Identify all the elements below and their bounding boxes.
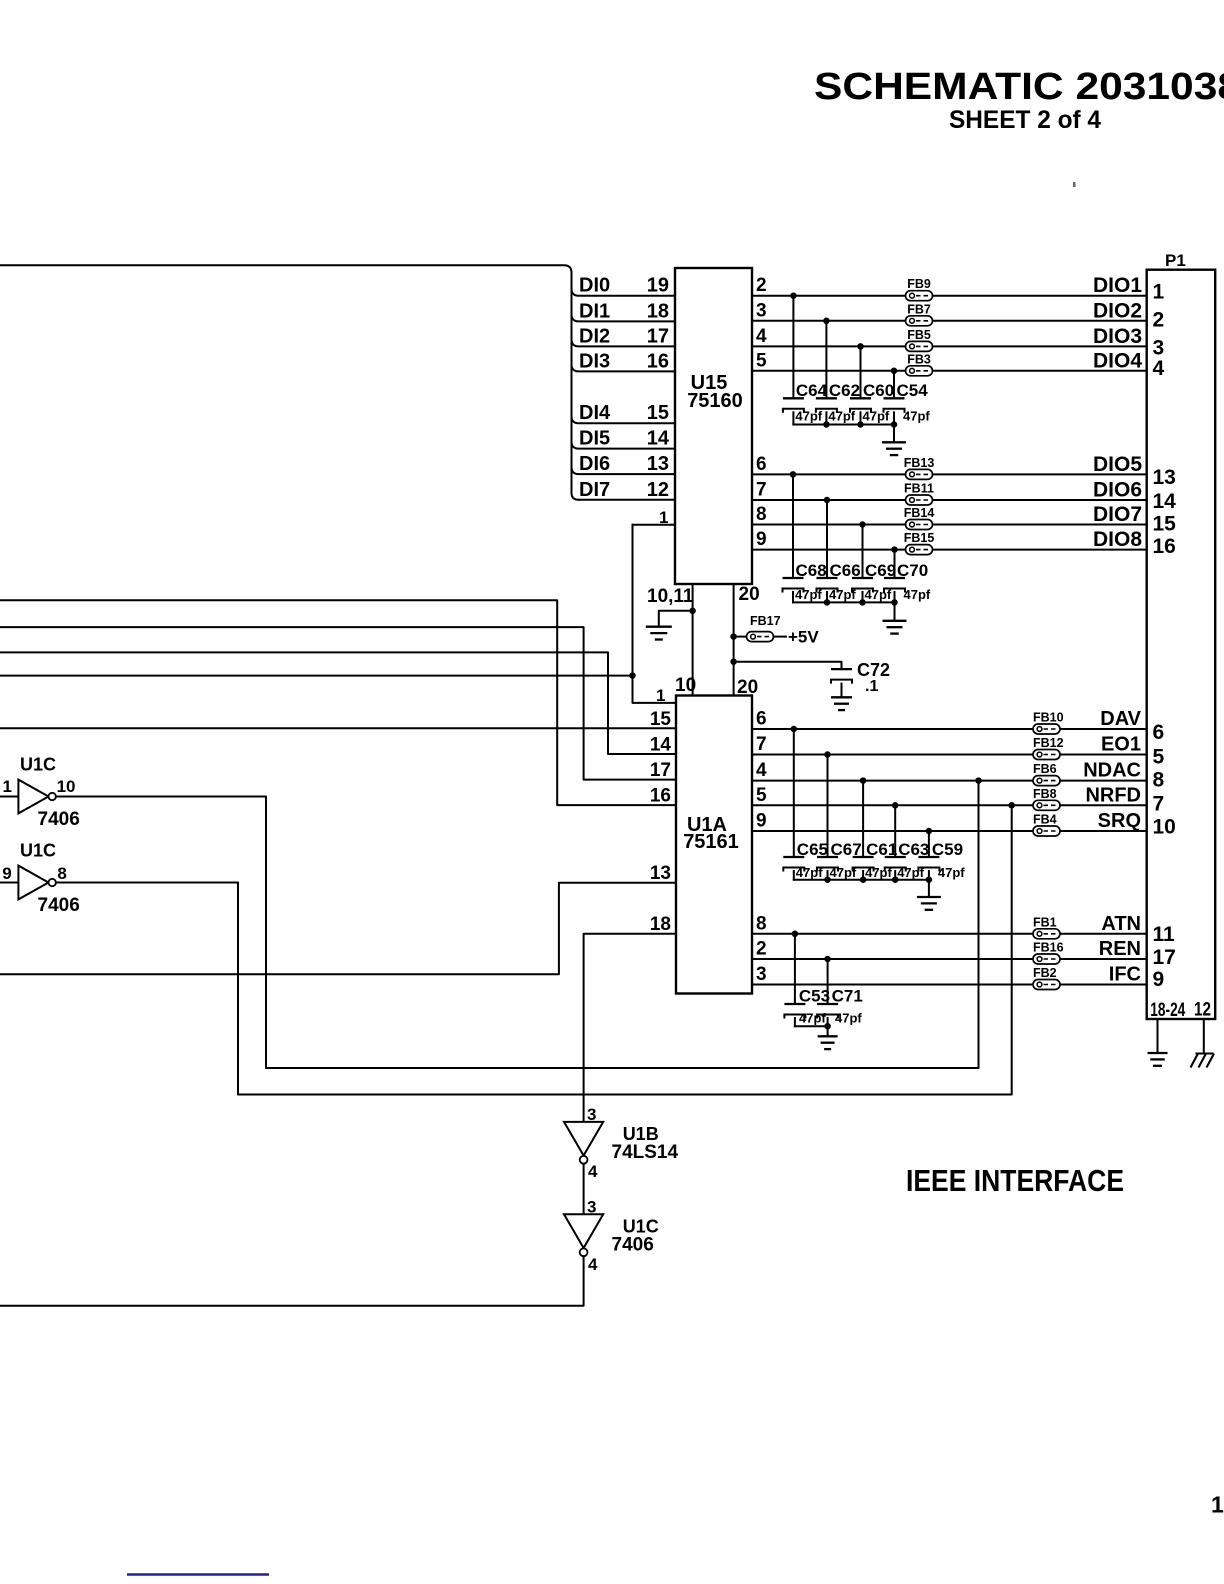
gate U1B 74LS14 inverter (pins 3-4) xyxy=(564,1122,603,1164)
wire left line D to control net xyxy=(0,675,633,677)
junction on DIO6 wire xyxy=(824,497,831,504)
svg-text:4: 4 xyxy=(588,1162,598,1181)
capacitor C63 47pf xyxy=(894,805,896,857)
capacitor C70 47pf xyxy=(894,550,896,578)
svg-text:U1C: U1C xyxy=(623,1217,659,1237)
svg-text:DI4: DI4 xyxy=(579,402,611,424)
svg-text:17: 17 xyxy=(650,760,671,781)
wire U15 pin 2 to P1 (DIO1) xyxy=(752,295,1147,297)
ferrite bead FB10 xyxy=(1033,724,1060,734)
wire DI0 to U15 pin 19 xyxy=(572,289,676,296)
wire U15 pin 9 to P1 (DIO8) xyxy=(752,549,1147,551)
svg-text:REN: REN xyxy=(1099,938,1141,960)
wire U1A pin 3 to P1 (IFC) xyxy=(752,984,1147,986)
ferrite bead FB13 xyxy=(906,469,933,479)
svg-text:U1C: U1C xyxy=(20,841,56,861)
svg-text:ATN: ATN xyxy=(1101,913,1141,935)
svg-text:7406: 7406 xyxy=(38,809,80,830)
svg-text:FB8: FB8 xyxy=(1033,787,1057,801)
junction on NDAC wire xyxy=(975,777,982,784)
svg-text:FB9: FB9 xyxy=(907,277,931,291)
wire U1A pin 2 to P1 (REN) xyxy=(752,958,1147,960)
junction on DIO2 wire xyxy=(823,318,830,325)
node: ground branch junction xyxy=(689,608,696,615)
svg-text:DIO4: DIO4 xyxy=(1093,349,1142,372)
junction on DIO1 wire xyxy=(790,292,797,299)
ferrite bead FB5 xyxy=(906,341,933,351)
connector P1 xyxy=(1147,270,1216,1019)
svg-text:FB12: FB12 xyxy=(1033,736,1064,750)
svg-text:2: 2 xyxy=(756,275,767,296)
svg-text:2: 2 xyxy=(756,939,767,960)
wire left line B to U1A pin 17 xyxy=(0,627,676,780)
wire U15 pin 7 to P1 (DIO6) xyxy=(752,499,1147,501)
svg-text:20: 20 xyxy=(739,584,760,605)
ferrite bead FB16 xyxy=(1033,954,1060,964)
ground (cap bank1) xyxy=(893,425,895,443)
gate U1C 7406 inverter (pins 3-4) xyxy=(564,1214,603,1256)
junction bank4 xyxy=(824,1023,831,1030)
svg-text:47pf: 47pf xyxy=(828,409,855,424)
junction on DIO5 wire xyxy=(790,471,797,478)
wire U1A pin 7 to P1 (EO1) xyxy=(752,754,1147,756)
wire U15 pin 8 to P1 (DIO7) xyxy=(752,524,1147,526)
node: FB17 branch junction xyxy=(730,633,737,640)
svg-text:17: 17 xyxy=(647,325,669,347)
svg-text:DIO7: DIO7 xyxy=(1093,503,1142,526)
gate U1C 7406 inverter (pins 1-10) xyxy=(0,780,56,814)
svg-text:47pf: 47pf xyxy=(938,865,965,880)
wire P1 pin 12 to chassis ground xyxy=(1203,1019,1205,1054)
wire U1A pin 18 to gate U1B input xyxy=(584,934,676,1122)
svg-text:FB1: FB1 xyxy=(1033,915,1057,929)
svg-text:IEEE INTERFACE: IEEE INTERFACE xyxy=(906,1163,1124,1198)
ferrite bead FB9 xyxy=(906,291,933,301)
svg-text:2: 2 xyxy=(1153,309,1165,332)
svg-text:13: 13 xyxy=(1153,466,1176,489)
junction on ATN wire xyxy=(792,931,799,938)
ferrite bead FB2 xyxy=(1033,980,1060,990)
svg-text:1: 1 xyxy=(659,508,668,527)
junction on DIO4 wire xyxy=(891,368,898,375)
svg-text:10: 10 xyxy=(1153,816,1176,839)
svg-text:19: 19 xyxy=(647,275,669,297)
capacitor C65 47pf xyxy=(793,729,795,857)
junction on DAV wire xyxy=(791,726,798,733)
svg-text:6: 6 xyxy=(756,454,767,475)
ferrite bead FB8 xyxy=(1033,800,1060,810)
svg-text:C54: C54 xyxy=(897,381,929,400)
svg-text:47pf: 47pf xyxy=(865,587,892,602)
svg-text:FB13: FB13 xyxy=(904,456,935,470)
svg-text:C72: C72 xyxy=(857,660,890,680)
svg-text:5: 5 xyxy=(756,785,767,806)
svg-text:9: 9 xyxy=(2,864,11,883)
blue underline mark xyxy=(127,1573,269,1576)
ground (cap bank2) xyxy=(894,602,896,620)
svg-text:7: 7 xyxy=(756,480,767,501)
wire DI7 to U15 pin 12 xyxy=(579,499,676,501)
svg-text:FB16: FB16 xyxy=(1033,941,1064,955)
svg-text:16: 16 xyxy=(650,786,671,807)
svg-text:9: 9 xyxy=(756,529,767,550)
svg-text:74LS14: 74LS14 xyxy=(612,1142,679,1163)
junction bank3 xyxy=(926,876,933,883)
svg-text:DI7: DI7 xyxy=(579,479,610,501)
svg-text:U1C: U1C xyxy=(20,755,56,775)
wire FB17 to +5V xyxy=(774,636,787,638)
svg-text:5: 5 xyxy=(1153,746,1165,769)
wire DI3 to U15 pin 16 xyxy=(572,364,676,371)
svg-text:DIO6: DIO6 xyxy=(1093,479,1142,502)
svg-text:13: 13 xyxy=(650,863,671,884)
svg-text:SRQ: SRQ xyxy=(1098,810,1141,832)
svg-text:75161: 75161 xyxy=(683,831,739,853)
ferrite bead FB4 xyxy=(1033,826,1060,836)
chassis ground (P1 pin 12) xyxy=(1191,1054,1215,1068)
wire U15 pins 10,11 down xyxy=(692,584,694,696)
svg-text:18: 18 xyxy=(647,300,669,322)
svg-text:7406: 7406 xyxy=(612,1235,654,1256)
capacitor C72 .1 xyxy=(831,668,852,670)
svg-text:17: 17 xyxy=(1153,946,1176,969)
svg-text:FB6: FB6 xyxy=(1033,762,1057,776)
svg-text:47pf: 47pf xyxy=(799,1011,826,1026)
svg-text:FB15: FB15 xyxy=(904,531,935,545)
wire DI2 to U15 pin 17 xyxy=(572,339,676,346)
ground (P1 18-24) xyxy=(1148,1053,1168,1066)
ferrite bead FB7 xyxy=(906,316,933,326)
svg-text:15: 15 xyxy=(647,402,669,424)
svg-text:FB5: FB5 xyxy=(907,328,931,342)
svg-text:1: 1 xyxy=(1153,281,1165,304)
svg-text:9: 9 xyxy=(1153,968,1165,991)
ferrite bead FB12 xyxy=(1033,750,1060,760)
junction bank2 xyxy=(824,599,831,606)
ferrite bead FB14 xyxy=(906,520,933,530)
svg-text:FB7: FB7 xyxy=(907,302,931,316)
svg-text:7: 7 xyxy=(756,734,767,755)
svg-text:DI2: DI2 xyxy=(579,325,610,347)
wire to ground xyxy=(659,611,693,627)
junction bank2 xyxy=(859,599,866,606)
svg-text:C53: C53 xyxy=(799,987,830,1006)
svg-text:U1B: U1B xyxy=(623,1124,659,1144)
svg-text:1.: 1. xyxy=(1211,1492,1224,1518)
junction on DIO8 wire xyxy=(891,546,898,553)
wire DI5 to U15 pin 14 xyxy=(572,442,676,449)
wire: cap bank1 ground bus xyxy=(793,424,894,426)
wire: cap bank3 ground bus xyxy=(794,879,929,881)
svg-text:47pf: 47pf xyxy=(835,1011,862,1026)
svg-text:14: 14 xyxy=(1153,490,1177,513)
junction on NRFD wire xyxy=(1008,802,1015,809)
svg-text:6: 6 xyxy=(756,709,767,730)
svg-text:10: 10 xyxy=(57,777,76,796)
svg-text:EO1: EO1 xyxy=(1101,734,1141,756)
ground (C72) xyxy=(831,697,852,710)
svg-text:47pf: 47pf xyxy=(904,587,931,602)
wire U1A pin 9 to P1 (SRQ) xyxy=(752,830,1147,832)
svg-text:12: 12 xyxy=(1194,1000,1211,1021)
junction on EO1 wire xyxy=(824,751,831,758)
svg-text:+5V: +5V xyxy=(788,628,819,647)
svg-text:DI6: DI6 xyxy=(579,453,610,475)
capacitor C60 47pf xyxy=(860,346,862,398)
svg-text:DIO1: DIO1 xyxy=(1093,274,1142,297)
svg-text:4: 4 xyxy=(1153,357,1165,380)
junction on DIO3 wire xyxy=(857,343,864,350)
svg-text:4: 4 xyxy=(588,1255,598,1274)
svg-text:C59: C59 xyxy=(932,840,963,859)
svg-text:FB11: FB11 xyxy=(904,482,934,496)
wire to C72 xyxy=(734,662,842,669)
svg-text:DI3: DI3 xyxy=(579,350,610,372)
svg-text:SCHEMATIC 2031038: SCHEMATIC 2031038 xyxy=(814,66,1224,108)
ground (cap bank4) xyxy=(827,1026,829,1036)
svg-text:14: 14 xyxy=(650,735,672,756)
svg-text:FB3: FB3 xyxy=(907,352,931,366)
svg-text:9: 9 xyxy=(756,811,767,832)
capacitor C69 47pf xyxy=(862,525,864,579)
node: junction with left line D xyxy=(629,672,636,679)
wire U15 pin 5 to P1 (DIO4) xyxy=(752,370,1147,372)
junction bank3 xyxy=(824,876,831,883)
svg-text:8: 8 xyxy=(756,504,767,525)
svg-text:75160: 75160 xyxy=(687,390,743,412)
wire U15 pin 6 to P1 (DIO5) xyxy=(752,473,1147,475)
svg-text:16: 16 xyxy=(1153,535,1176,558)
capacitor C59 47pf xyxy=(928,831,930,857)
junction bank1 xyxy=(857,421,864,428)
capacitor C66 47pf xyxy=(826,500,828,578)
svg-text:47pf: 47pf xyxy=(829,587,856,602)
svg-text:FB4: FB4 xyxy=(1033,813,1057,827)
svg-text:DIO8: DIO8 xyxy=(1093,528,1142,551)
capacitor C68 47pf xyxy=(792,474,794,578)
capacitor C54 47pf xyxy=(893,371,895,399)
junction bank1 xyxy=(823,421,830,428)
junction on REN wire xyxy=(824,956,831,963)
ferrite bead FB1 xyxy=(1033,929,1060,939)
svg-text:47pf: 47pf xyxy=(863,409,890,424)
wire U1C#1 output to NDAC net xyxy=(56,781,979,1068)
capacitor C71 47pf xyxy=(827,959,829,1004)
svg-text:13: 13 xyxy=(647,453,669,475)
svg-text:IFC: IFC xyxy=(1109,964,1141,986)
wire U1B output to U1C input xyxy=(583,1164,585,1214)
svg-text:11: 11 xyxy=(1153,923,1176,946)
wire left line A to U1A pin 16 xyxy=(0,600,676,805)
wire U1C output to left edge xyxy=(0,1256,584,1305)
svg-text:18: 18 xyxy=(650,914,671,935)
svg-text:47pf: 47pf xyxy=(865,865,892,880)
wire U15 pin 20 down to U1A pin 20 xyxy=(733,584,735,696)
junction bank3 xyxy=(860,876,867,883)
wire: DI bus feed from left edge xyxy=(0,265,579,500)
svg-text:47pf: 47pf xyxy=(903,409,930,424)
wire to FB17 xyxy=(734,636,747,638)
wire left line E to U1A pin 15 xyxy=(0,727,676,729)
capacitor C62 47pf xyxy=(825,321,827,399)
wire U1A pin 13 to left edge xyxy=(0,883,676,975)
svg-text:8: 8 xyxy=(756,913,767,934)
junction bank2 xyxy=(891,599,898,606)
svg-text:47pf: 47pf xyxy=(897,865,924,880)
IC U15 75160 xyxy=(675,268,752,584)
svg-text:10: 10 xyxy=(675,675,696,696)
svg-text:18-24: 18-24 xyxy=(1150,1000,1185,1021)
svg-text:SHEET 2 of 4: SHEET 2 of 4 xyxy=(949,106,1101,134)
svg-text:15: 15 xyxy=(1153,512,1177,535)
svg-text:47pf: 47pf xyxy=(795,409,822,424)
svg-text:DIO2: DIO2 xyxy=(1093,299,1142,322)
svg-text:4: 4 xyxy=(756,760,767,781)
svg-text:FB14: FB14 xyxy=(904,506,935,520)
wire U1A pin 8 to P1 (ATN) xyxy=(752,933,1147,935)
ferrite bead FB15 xyxy=(906,545,933,555)
svg-text:12: 12 xyxy=(647,479,669,501)
svg-text:7: 7 xyxy=(1153,793,1165,816)
ground (cap bank3) xyxy=(928,880,930,897)
svg-text:8: 8 xyxy=(1153,769,1165,792)
svg-text:.1: .1 xyxy=(865,678,878,695)
wire: cap bank2 ground bus xyxy=(793,601,895,603)
svg-text:FB10: FB10 xyxy=(1033,711,1064,725)
svg-text:1: 1 xyxy=(3,777,12,796)
ferrite bead FB11 xyxy=(906,495,933,505)
svg-text:14: 14 xyxy=(647,428,670,450)
svg-text:DI1: DI1 xyxy=(579,300,610,322)
capacitor C64 47pf xyxy=(792,296,794,399)
svg-text:16: 16 xyxy=(647,350,669,372)
svg-text:DI0: DI0 xyxy=(579,275,610,297)
svg-text:C70: C70 xyxy=(897,561,928,580)
junction bank3 xyxy=(892,876,899,883)
svg-text:FB17: FB17 xyxy=(750,614,781,628)
wire U1C#2 output to NRFD net xyxy=(56,805,1012,1094)
capacitor C61 47pf xyxy=(862,781,864,857)
wire P1 pins 18-24 to ground xyxy=(1157,1019,1159,1053)
wire left line C to U1A pin 14 xyxy=(0,652,676,754)
ground (U15 pins 10,11) xyxy=(646,627,672,640)
svg-text:NDAC: NDAC xyxy=(1083,760,1141,782)
svg-text:DI5: DI5 xyxy=(579,428,610,450)
svg-text:1: 1 xyxy=(656,686,665,705)
capacitor C67 47pf xyxy=(827,755,829,858)
svg-text:47pf: 47pf xyxy=(796,865,823,880)
svg-text:FB2: FB2 xyxy=(1033,966,1057,980)
wire U1A pin 4 to P1 (NDAC) xyxy=(752,780,1147,782)
stray mark xyxy=(1073,182,1076,187)
svg-text:5: 5 xyxy=(756,350,767,371)
wire DI6 to U15 pin 13 xyxy=(572,467,676,474)
junction on DIO7 wire xyxy=(859,521,866,528)
wire U15 pin 3 to P1 (DIO2) xyxy=(752,320,1147,322)
svg-text:3: 3 xyxy=(756,300,767,321)
junction bank1 xyxy=(891,421,898,428)
wire U1A pin 5 to P1 (NRFD) xyxy=(752,804,1147,806)
wire: cap bank4 ground bus xyxy=(795,1025,828,1027)
svg-text:7406: 7406 xyxy=(38,895,80,916)
svg-text:DIO5: DIO5 xyxy=(1093,453,1142,476)
IC U1A 75161 xyxy=(676,696,752,994)
svg-text:C71: C71 xyxy=(832,987,863,1006)
wire DI4 to U15 pin 15 xyxy=(572,416,676,423)
svg-text:P1: P1 xyxy=(1165,251,1186,270)
junction on NRFD wire xyxy=(892,802,899,809)
svg-text:DIO3: DIO3 xyxy=(1093,325,1142,348)
svg-text:10,11: 10,11 xyxy=(647,586,694,607)
wire U15 pin 1 stub xyxy=(633,524,676,526)
svg-text:3: 3 xyxy=(756,964,767,985)
ferrite bead FB6 xyxy=(1033,776,1060,786)
wire U15 pin 4 to P1 (DIO3) xyxy=(752,345,1147,347)
node: C72 branch junction xyxy=(730,658,737,665)
gate U1C 7406 inverter (pins 9-8) xyxy=(0,866,56,900)
svg-text:DAV: DAV xyxy=(1100,708,1141,730)
svg-text:47pf: 47pf xyxy=(795,587,822,602)
svg-text:NRFD: NRFD xyxy=(1085,784,1141,806)
svg-text:4: 4 xyxy=(756,326,767,347)
svg-text:3: 3 xyxy=(587,1105,596,1124)
svg-text:6: 6 xyxy=(1153,721,1165,744)
svg-text:3: 3 xyxy=(587,1198,596,1217)
wire: control net vertical (U15 pin1 / U1A pin1 / left line D) xyxy=(633,525,677,703)
svg-text:47pf: 47pf xyxy=(830,865,857,880)
junction on NDAC wire xyxy=(860,777,867,784)
svg-text:8: 8 xyxy=(57,864,66,883)
ferrite bead FB17 xyxy=(747,632,774,642)
wire DI1 to U15 pin 18 xyxy=(572,314,676,321)
wire U1A pin 6 to P1 (DAV) xyxy=(752,728,1147,730)
ferrite bead FB3 xyxy=(906,366,933,376)
svg-text:15: 15 xyxy=(650,709,672,730)
junction on SRQ wire xyxy=(926,828,933,835)
capacitor C53 47pf xyxy=(794,934,796,1004)
